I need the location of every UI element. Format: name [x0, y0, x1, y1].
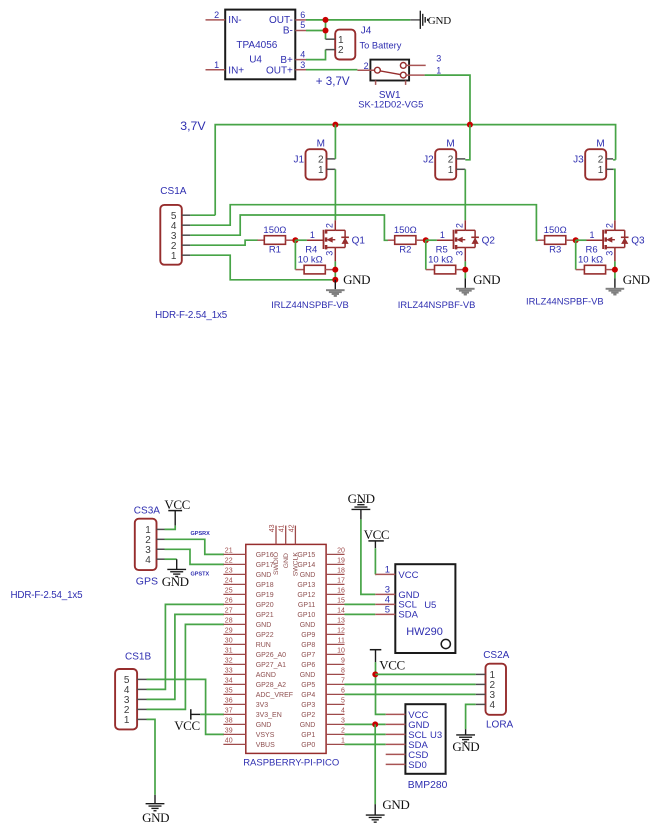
junction rail/J1: [332, 122, 338, 128]
svg-text:GP18: GP18: [256, 582, 274, 589]
junction source/R6: [612, 267, 618, 273]
wire CS1A pin3 to R2 (Q2 gate feed): [190, 215, 388, 240]
wire Pico GP11 to U5 SCL: [345, 603, 376, 605]
wire SW1 pin1 to 3,7V rail: [425, 75, 470, 125]
svg-text:SWDIO: SWDIO: [273, 552, 280, 575]
IC U4 (TPA4056 charger module): [206, 10, 307, 80]
Pico pin 17 (GP13): [297, 577, 345, 589]
Pico pin 5 (GP3): [301, 697, 345, 709]
MCU RASPBERRY-PI-PICO: [246, 544, 326, 753]
ground (LORA): [452, 729, 479, 754]
svg-text:24: 24: [225, 577, 233, 584]
resistor R5 (10 kΩ): [426, 244, 466, 274]
Pico pin 13 (GND): [300, 617, 345, 629]
svg-text:150Ω: 150Ω: [394, 225, 417, 236]
Pico pin 18 (GND): [300, 567, 345, 579]
Pico pin 6 (GP4): [301, 687, 345, 699]
svg-text:OUT-: OUT-: [269, 15, 293, 26]
svg-text:VBUS: VBUS: [256, 742, 275, 749]
svg-text:Q1: Q1: [352, 235, 366, 246]
svg-text:10 kΩ: 10 kΩ: [578, 255, 603, 266]
svg-text:42: 42: [288, 524, 295, 532]
Pico pin 32 (GP27_A1): [223, 657, 286, 669]
wire CS3A pin4 to GND: [165, 558, 177, 560]
svg-text:GP7: GP7: [301, 652, 315, 659]
svg-text:GND: GND: [343, 272, 370, 287]
svg-text:7: 7: [341, 677, 345, 684]
svg-text:3: 3: [604, 251, 614, 256]
svg-text:SDA: SDA: [398, 609, 418, 620]
svg-text:CS3A: CS3A: [134, 506, 160, 517]
svg-text:VCC: VCC: [164, 497, 190, 512]
wire Pico GP7 to CS2A pin2: [345, 683, 476, 685]
svg-text:SK-12D02-VG5: SK-12D02-VG5: [358, 99, 423, 110]
wire CS1A pin2 to R1 (Q1 gate feed): [190, 240, 257, 245]
resistor R2 (150Ω): [388, 225, 426, 256]
svg-text:21: 21: [225, 547, 233, 554]
svg-text:6: 6: [341, 687, 345, 694]
Pico pin 29 (GP22): [223, 627, 273, 639]
svg-text:LORA: LORA: [486, 720, 514, 731]
svg-text:1: 1: [338, 35, 344, 46]
Pico pin 16 (GP12): [297, 587, 345, 599]
power VCC (U5): [364, 527, 390, 548]
svg-text:U3: U3: [430, 730, 442, 741]
svg-text:33: 33: [225, 667, 233, 674]
svg-text:15: 15: [337, 597, 345, 604]
ground (Q2 source): [464, 278, 466, 288]
svg-text:3V3_EN: 3V3_EN: [256, 712, 282, 719]
Pico pin 43 (SWDIO): [269, 524, 280, 575]
wire Q2 source to GND: [464, 261, 466, 278]
wire CS3A pin3 to Pico GP17 (GPSTX): [165, 549, 225, 564]
svg-text:VSYS: VSYS: [256, 732, 275, 739]
Pico pin 2 (GP1): [301, 727, 345, 739]
wire gate node down to R5: [425, 240, 427, 269]
svg-text:2: 2: [448, 154, 454, 165]
svg-text:2: 2: [341, 727, 345, 734]
Pico pin 30 (RUN): [223, 637, 270, 649]
svg-text:IRLZ44NSPBF-VB: IRLZ44NSPBF-VB: [271, 299, 349, 310]
wire GND to U5 pin3: [361, 519, 375, 594]
svg-text:9: 9: [341, 657, 345, 664]
Pico pin 28 (GND): [223, 617, 271, 629]
svg-text:4: 4: [145, 555, 151, 566]
svg-text:150Ω: 150Ω: [544, 225, 567, 236]
svg-text:B+: B+: [280, 55, 293, 66]
Pico pin 12 (GP9): [301, 627, 345, 639]
Pico pin 37 (3V3_EN): [223, 707, 281, 719]
svg-text:ADC_VREF: ADC_VREF: [256, 692, 293, 699]
connector J4 (To Battery): [326, 25, 402, 59]
svg-text:Q3: Q3: [631, 235, 645, 246]
svg-text:11: 11: [338, 637, 345, 644]
wire VCC to CS2A pin1: [375, 673, 475, 675]
switch SW1 (SK-12D02-VG5): [357, 54, 441, 110]
svg-text:3: 3: [325, 251, 335, 256]
ground (Q3 source): [614, 278, 616, 288]
svg-text:GP15: GP15: [297, 552, 315, 559]
svg-text:3,7V: 3,7V: [180, 119, 206, 133]
svg-text:GP0: GP0: [301, 742, 315, 749]
transistor Q2 (IRLZ44N MOSFET): [437, 220, 495, 261]
svg-text:VCC: VCC: [379, 657, 405, 672]
Pico pin 3 (GND): [300, 717, 345, 729]
Pico pin 7 (GP5): [301, 677, 345, 689]
svg-text:VCC: VCC: [364, 527, 390, 542]
svg-text:1: 1: [598, 165, 604, 176]
connector CS1B (HDR-F-2.54_1x5): [115, 652, 151, 730]
junction R1/R4/gate: [292, 237, 298, 243]
svg-text:4: 4: [300, 49, 305, 59]
svg-text:GND: GND: [162, 574, 189, 589]
svg-text:4: 4: [490, 700, 496, 711]
svg-text:GP28_A2: GP28_A2: [256, 682, 286, 689]
ground (GPS): [162, 559, 189, 589]
power VCC (sensor rail): [370, 650, 405, 673]
IC U3 (BMP280 pressure sensor): [386, 704, 448, 791]
wire Pico GP1 to BMP280 SCL: [345, 733, 386, 735]
svg-text:23: 23: [225, 567, 233, 574]
Pico pin 19 (GP14): [297, 557, 345, 569]
wire OUT- to GND: [306, 19, 410, 21]
svg-text:GND: GND: [348, 491, 375, 506]
svg-text:R2: R2: [399, 244, 411, 255]
junction R2/R5/gate: [423, 237, 429, 243]
svg-text:U4: U4: [249, 54, 262, 65]
wire Pico GP10 to U5 SDA: [345, 613, 376, 615]
wire J3 pin1 to Q3 drain: [613, 169, 615, 220]
Pico pin 10 (GP7): [301, 647, 345, 659]
svg-text:2: 2: [364, 61, 369, 71]
svg-text:GND: GND: [300, 672, 316, 679]
Pico pin 25 (GP19): [223, 587, 273, 599]
svg-text:30: 30: [225, 637, 233, 644]
wire VCC to Pico 3V3_EN: [200, 713, 224, 715]
svg-text:1: 1: [171, 251, 177, 262]
svg-text:GND: GND: [382, 797, 409, 812]
power VCC (CS3A pin1): [164, 497, 190, 526]
ground (CS1B pin1): [142, 795, 169, 825]
wire CS1B pin3 to Pico GP20: [147, 614, 225, 699]
svg-text:IN-: IN-: [228, 15, 241, 26]
wire B+ to J4 pin2: [306, 50, 326, 60]
svg-text:2: 2: [455, 223, 465, 228]
Pico pin 11 (GP8): [301, 637, 345, 649]
Pico pin 31 (GP26_A0): [223, 647, 286, 659]
svg-text:8: 8: [341, 667, 345, 674]
svg-text:GP2: GP2: [301, 712, 315, 719]
wire J1 pin1 to Q1 drain: [334, 169, 336, 220]
svg-text:GP16: GP16: [256, 552, 274, 559]
svg-text:B-: B-: [283, 26, 293, 37]
svg-text:VCC: VCC: [174, 718, 200, 733]
svg-text:GP10: GP10: [297, 612, 315, 619]
svg-text:1: 1: [214, 60, 219, 70]
svg-text:J1: J1: [293, 155, 304, 166]
svg-text:+ 3,7V: + 3,7V: [316, 75, 350, 88]
svg-text:J2: J2: [423, 155, 434, 166]
resistor R3 (150Ω): [538, 225, 576, 256]
wire GND junction down to ground: [374, 724, 376, 804]
svg-text:GP1: GP1: [301, 732, 315, 739]
svg-text:GND: GND: [300, 572, 316, 579]
svg-text:GP21: GP21: [256, 612, 274, 619]
Pico pin 8 (GND): [300, 667, 345, 679]
resistor R1 (150Ω): [257, 225, 295, 256]
svg-text:13: 13: [337, 617, 345, 624]
connector CS2A (LORA): [476, 650, 514, 731]
junction VCC/CS2A pin1: [372, 671, 378, 677]
Pico pin 39 (VSYS): [223, 727, 274, 739]
wire CS1B pin4 to Pico GP19: [147, 604, 225, 689]
svg-text:38: 38: [225, 717, 233, 724]
svg-text:22: 22: [225, 557, 233, 564]
svg-text:SWCLK: SWCLK: [293, 552, 300, 577]
Pico pin 15 (GP11): [298, 597, 345, 609]
Pico pin 36 (3V3): [223, 697, 268, 709]
svg-text:26: 26: [225, 597, 233, 604]
junction on B- net: [323, 28, 329, 34]
Pico pin 26 (GP20): [223, 597, 273, 609]
svg-text:6: 6: [300, 10, 305, 20]
wire J2 pin1 to Q2 drain: [464, 169, 466, 220]
svg-text:2: 2: [325, 223, 335, 228]
junction rail/SW1/J2: [467, 122, 473, 128]
Pico pin 27 (GP21): [223, 607, 273, 619]
svg-text:150Ω: 150Ω: [263, 225, 286, 236]
svg-text:IN+: IN+: [228, 65, 244, 76]
svg-text:AGND: AGND: [256, 672, 276, 679]
wire Pico GP0 to BMP280 SDA: [345, 743, 386, 745]
svg-text:HDR-F-2.54_1x5: HDR-F-2.54_1x5: [155, 310, 228, 321]
svg-text:GPSTX: GPSTX: [191, 571, 210, 577]
connector CS3A (GPS): [134, 506, 165, 588]
ground (charger GND, right-facing): [410, 11, 451, 29]
svg-text:GND: GND: [142, 810, 169, 825]
svg-text:GP20: GP20: [256, 602, 274, 609]
wire VCC to U5 pin1: [374, 548, 376, 574]
svg-text:GND: GND: [428, 15, 451, 27]
svg-text:GP8: GP8: [301, 642, 315, 649]
svg-text:GP27_A1: GP27_A1: [256, 662, 286, 669]
svg-text:1: 1: [310, 230, 315, 240]
svg-text:3V3: 3V3: [256, 702, 269, 709]
Pico pin 14 (GP10): [297, 607, 345, 619]
Pico pin 33 (AGND): [223, 667, 276, 679]
svg-text:RASPBERRY-PI-PICO: RASPBERRY-PI-PICO: [243, 757, 339, 768]
Pico pin 42 (SWCLK): [288, 524, 299, 576]
ground (Q1 source): [334, 280, 336, 290]
svg-text:OUT+: OUT+: [266, 65, 293, 76]
wire gate node to gate: [426, 239, 437, 241]
svg-text:CS1A: CS1A: [160, 186, 186, 197]
wire junction OUT- to J4 pin1: [325, 20, 327, 39]
svg-text:16: 16: [337, 587, 345, 594]
svg-text:GND: GND: [283, 553, 290, 568]
svg-text:VCC: VCC: [398, 570, 418, 581]
svg-text:37: 37: [225, 707, 233, 714]
svg-text:GP12: GP12: [297, 592, 315, 599]
wire Pico GND to BMP280 GND: [345, 723, 386, 725]
svg-text:GP11: GP11: [298, 602, 315, 609]
wire CS1B pin2 to Pico GP21: [147, 624, 225, 709]
wire CS1A pin1 to GND rail: [190, 255, 335, 280]
wire gate node down to R4: [294, 240, 296, 269]
svg-text:4: 4: [341, 707, 345, 714]
svg-text:31: 31: [225, 647, 233, 654]
svg-text:2: 2: [214, 10, 219, 20]
Pico pin 38 (GND): [223, 717, 271, 729]
svg-text:36: 36: [225, 697, 233, 704]
wire gate node down to R6: [575, 240, 577, 269]
svg-text:34: 34: [225, 677, 233, 684]
Pico pin 4 (GP2): [301, 707, 345, 719]
svg-text:GP13: GP13: [297, 582, 315, 589]
wire CS1A pin5 to 3,7V rail: [190, 214, 215, 216]
svg-text:GP14: GP14: [297, 562, 315, 569]
svg-text:29: 29: [225, 627, 233, 634]
wire gate node to gate: [576, 239, 587, 241]
svg-text:HW290: HW290: [406, 626, 443, 638]
svg-text:1: 1: [341, 737, 345, 744]
svg-text:3: 3: [455, 251, 465, 256]
svg-text:GP6: GP6: [301, 662, 315, 669]
svg-text:2: 2: [318, 154, 324, 165]
svg-text:IRLZ44NSPBF-VB: IRLZ44NSPBF-VB: [526, 296, 604, 307]
svg-text:CS1B: CS1B: [125, 652, 151, 663]
svg-text:28: 28: [225, 617, 233, 624]
svg-text:12: 12: [337, 627, 345, 634]
ground (Pico/BMP GND): [366, 797, 410, 822]
svg-text:19: 19: [337, 557, 345, 564]
Pico pin 41 (GND): [279, 524, 290, 568]
wire 3,7V rail: [215, 125, 615, 216]
svg-text:18: 18: [337, 567, 345, 574]
junction source/R5: [462, 267, 468, 273]
svg-text:GP19: GP19: [256, 592, 274, 599]
wire CS1A pin4 to R3 (Q3 gate feed): [190, 205, 538, 241]
wire VCC to CS3A pin1: [165, 526, 176, 530]
wire gate node to gate: [295, 239, 307, 241]
svg-text:GP3: GP3: [301, 702, 315, 709]
connector CS1A (HDR-F-2.54_1x5): [160, 186, 190, 264]
wire Pico GP6 to CS2A pin3: [345, 693, 476, 695]
svg-text:2: 2: [338, 45, 344, 56]
junction source/R4: [332, 267, 338, 273]
connector J2 (motor): [423, 138, 465, 179]
svg-text:39: 39: [225, 727, 233, 734]
Pico pin 20 (GP15): [297, 547, 345, 559]
svg-text:Q2: Q2: [482, 235, 496, 246]
svg-text:2: 2: [598, 154, 604, 165]
svg-text:GP22: GP22: [256, 632, 274, 639]
Pico pin 21 (GP16): [223, 547, 273, 559]
svg-text:25: 25: [225, 587, 233, 594]
svg-text:20: 20: [337, 547, 345, 554]
svg-text:M: M: [317, 138, 325, 149]
svg-text:27: 27: [225, 607, 233, 614]
svg-text:U5: U5: [424, 600, 436, 611]
svg-text:M: M: [446, 138, 454, 149]
svg-text:GND: GND: [300, 622, 316, 629]
IC U5 (HW290 gyroscope): [375, 564, 455, 653]
svg-text:3: 3: [436, 54, 441, 64]
svg-text:10 kΩ: 10 kΩ: [428, 255, 453, 266]
wire OUT+ to SW1: [306, 69, 357, 71]
svg-text:GP26_A0: GP26_A0: [256, 652, 286, 659]
transistor Q1 (IRLZ44N MOSFET): [307, 220, 365, 261]
svg-text:GND: GND: [300, 722, 316, 729]
svg-text:GND: GND: [473, 272, 500, 287]
wire CS3A pin2 to Pico GP16 (GPSRX): [165, 539, 225, 554]
svg-text:1: 1: [440, 230, 445, 240]
svg-text:BMP280: BMP280: [408, 780, 448, 791]
svg-text:M: M: [596, 138, 604, 149]
Pico pin 40 (VBUS): [223, 737, 275, 749]
wire Q3 source to GND: [614, 261, 616, 278]
svg-text:1: 1: [448, 165, 454, 176]
svg-text:GND: GND: [256, 572, 272, 579]
svg-text:1: 1: [436, 66, 441, 76]
svg-text:GP4: GP4: [301, 692, 315, 699]
svg-text:GP17: GP17: [256, 562, 274, 569]
wire Q1 source to GND: [334, 261, 336, 279]
svg-text:GP9: GP9: [301, 632, 315, 639]
svg-text:To Battery: To Battery: [360, 40, 402, 50]
svg-text:3: 3: [300, 60, 305, 70]
svg-text:1: 1: [124, 715, 130, 726]
wire CS1B pin5 to Pico VSYS: [147, 679, 225, 734]
svg-text:2: 2: [604, 223, 614, 228]
svg-text:GPSRX: GPSRX: [191, 531, 211, 537]
svg-text:RUN: RUN: [256, 642, 271, 649]
svg-text:40: 40: [225, 737, 233, 744]
svg-text:CS2A: CS2A: [483, 650, 509, 661]
resistor R6 (10 kΩ): [576, 244, 615, 274]
svg-text:GND: GND: [256, 722, 272, 729]
svg-text:17: 17: [337, 577, 345, 584]
svg-text:HDR-F-2.54_1x5: HDR-F-2.54_1x5: [11, 590, 84, 601]
Pico pin 35 (ADC_VREF): [223, 687, 293, 699]
wire CS2A pin4 to GND: [466, 704, 476, 729]
svg-text:5: 5: [300, 20, 305, 30]
svg-text:5: 5: [385, 604, 390, 615]
svg-text:GND: GND: [452, 739, 479, 754]
connector J1 (motor): [293, 138, 335, 179]
svg-text:14: 14: [337, 607, 345, 614]
Pico pin 23 (GND): [223, 567, 271, 579]
svg-text:10: 10: [337, 647, 345, 654]
svg-text:41: 41: [279, 524, 286, 532]
resistor R4 (10 kΩ): [295, 244, 335, 274]
transistor Q3 (IRLZ44N MOSFET): [587, 220, 645, 261]
svg-text:J4: J4: [361, 25, 372, 36]
svg-text:SD0: SD0: [408, 760, 426, 771]
svg-text:1: 1: [318, 165, 324, 176]
svg-text:32: 32: [225, 657, 233, 664]
wire VCC rail down to BMP280 VCC: [376, 662, 386, 714]
junction on OUT- net: [323, 17, 329, 23]
wire rail to J2 pin2: [465, 125, 470, 160]
svg-text:3: 3: [341, 717, 345, 724]
Pico pin 24 (GP18): [223, 577, 273, 589]
Pico pin 1 (GP0): [301, 737, 345, 749]
svg-text:43: 43: [269, 524, 276, 532]
wire rail to J1 pin2: [334, 125, 336, 159]
svg-text:GPS: GPS: [136, 576, 158, 588]
svg-text:1: 1: [385, 564, 390, 575]
